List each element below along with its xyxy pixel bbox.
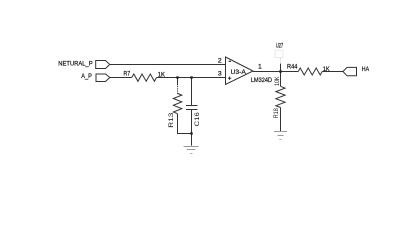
- svg-text:1K: 1K: [158, 72, 166, 79]
- svg-text:A_P: A_P: [81, 73, 92, 80]
- svg-text:R7: R7: [124, 71, 131, 78]
- svg-text:HA: HA: [362, 66, 370, 73]
- svg-text:U3-A: U3-A: [231, 69, 247, 76]
- svg-text:1K: 1K: [323, 66, 330, 73]
- svg-text:R13: R13: [168, 112, 175, 127]
- svg-text:R18: R18: [273, 108, 280, 118]
- svg-text:C16: C16: [194, 112, 201, 126]
- svg-text:R44: R44: [287, 64, 298, 71]
- svg-text:3: 3: [218, 70, 222, 77]
- svg-text:2: 2: [218, 58, 222, 65]
- svg-text:1: 1: [258, 63, 262, 70]
- svg-text:NETURAL_P: NETURAL_P: [58, 60, 93, 67]
- svg-text:LM324D: LM324D: [251, 77, 272, 84]
- svg-text:10K: 10K: [274, 76, 281, 86]
- svg-text:U27: U27: [276, 43, 284, 50]
